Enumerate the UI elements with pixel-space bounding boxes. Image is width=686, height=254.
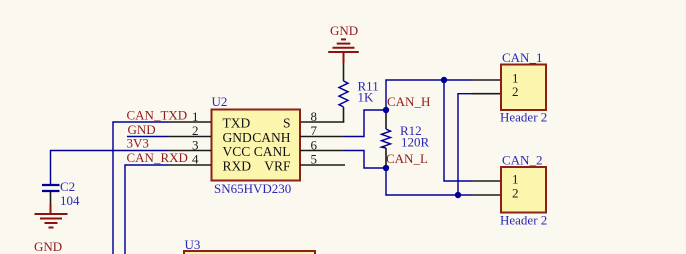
component U3 body (clipped at bottom) <box>184 251 315 254</box>
U2 pin 6 (CANL) <box>254 137 344 159</box>
label U3 <box>185 237 201 252</box>
wire U2 pin 8 to R11 <box>300 121 344 123</box>
label Header 2 (top) <box>500 110 547 125</box>
label R12 <box>400 123 422 138</box>
U2 pin 1 (TXD) <box>168 109 250 131</box>
svg-text:VCC: VCC <box>223 144 251 159</box>
junction node CAN_H bus split <box>441 77 447 83</box>
svg-text:1: 1 <box>192 109 199 124</box>
U2 body <box>212 110 301 181</box>
wire CAN_H branch to CAN_2 pin 1 <box>444 80 472 181</box>
svg-text:Header 2: Header 2 <box>500 213 547 228</box>
net label CAN_H <box>387 94 430 109</box>
power port GND (bottom left) <box>34 204 68 254</box>
svg-text:U2: U2 <box>212 94 228 109</box>
wire node CAN_L to CAN_2 pin 2 <box>386 168 472 195</box>
svg-text:CANH: CANH <box>252 130 291 145</box>
svg-text:1: 1 <box>512 172 519 187</box>
CAN_2 pin 1 <box>472 172 519 187</box>
junction node CAN_L bus split <box>455 192 461 198</box>
net label GND <box>128 122 156 137</box>
CAN_1 pin 2 <box>472 84 519 99</box>
svg-text:4: 4 <box>192 152 199 167</box>
junction node CAN_H at R12 top <box>383 107 389 113</box>
svg-text:VRF: VRF <box>264 158 291 173</box>
wire CAN_1 pin 2 to CAN_L branch <box>458 94 472 195</box>
CAN_1 pin 1 <box>472 71 519 86</box>
net label CAN_RXD <box>127 150 188 165</box>
wire CAN_TXD (to U3) <box>113 122 168 254</box>
svg-text:7: 7 <box>311 123 318 138</box>
U2 pin 2 (GND) <box>168 123 252 145</box>
svg-text:CAN_L: CAN_L <box>386 151 428 166</box>
svg-text:Header 2: Header 2 <box>500 110 547 125</box>
svg-text:1K: 1K <box>358 90 375 105</box>
svg-text:S: S <box>283 116 291 131</box>
U2 pin 4 (RXD) <box>168 152 251 174</box>
U2 pin 7 (CANH) <box>252 123 344 145</box>
label CAN_2 <box>502 153 542 168</box>
net label CAN_L <box>386 151 428 166</box>
svg-text:RXD: RXD <box>223 158 252 173</box>
svg-text:3: 3 <box>192 137 199 152</box>
U2 pin 8 (S) <box>283 109 317 131</box>
svg-text:2: 2 <box>512 186 519 201</box>
header CAN_2 body <box>501 167 546 213</box>
svg-text:GND: GND <box>223 130 252 145</box>
svg-text:CAN_RXD: CAN_RXD <box>127 150 188 165</box>
svg-text:TXD: TXD <box>223 116 251 131</box>
resistor R12 <box>382 110 391 168</box>
power port GND (top) <box>328 23 359 63</box>
label C2 <box>60 179 75 194</box>
capacitor C2 <box>42 185 60 204</box>
header CAN_1 body <box>501 65 546 111</box>
label R11 <box>358 79 379 94</box>
U2 pin 5 (VRF) <box>264 152 345 174</box>
svg-text:CAN_1: CAN_1 <box>502 50 542 65</box>
svg-text:6: 6 <box>311 137 318 152</box>
label SN65HVD230 <box>214 181 291 196</box>
svg-text:C2: C2 <box>60 179 75 194</box>
svg-text:8: 8 <box>311 109 318 124</box>
svg-text:2: 2 <box>512 84 519 99</box>
junction node CAN_L at R12 bottom <box>383 165 389 171</box>
svg-text:GND: GND <box>34 239 62 254</box>
label CAN_1 <box>502 50 542 65</box>
svg-text:U3: U3 <box>185 237 201 252</box>
resistor R11 <box>339 63 348 122</box>
U2 pin 3 (VCC) <box>168 137 250 159</box>
svg-text:GND: GND <box>330 23 358 38</box>
wire CAN_RXD (to U3) <box>125 165 168 254</box>
net label CAN_TXD <box>127 108 188 123</box>
svg-text:2: 2 <box>192 123 199 138</box>
svg-text:SN65HVD230: SN65HVD230 <box>214 181 291 196</box>
wire U2 pin 7 to node CAN_H <box>344 110 386 137</box>
svg-text:CAN_2: CAN_2 <box>502 153 542 168</box>
wire node CAN_H to CAN_1 pin 1 <box>386 80 472 110</box>
label 120R <box>401 135 430 150</box>
label 104 <box>60 193 80 208</box>
wire 3V3 to C2 <box>51 151 169 185</box>
label Header 2 (bottom) <box>500 213 547 228</box>
svg-text:CAN_TXD: CAN_TXD <box>127 108 188 123</box>
svg-text:3V3: 3V3 <box>127 136 149 151</box>
label 1K <box>358 90 375 105</box>
label U2 <box>212 94 228 109</box>
svg-text:104: 104 <box>60 193 80 208</box>
svg-text:5: 5 <box>311 152 318 167</box>
svg-text:CANL: CANL <box>254 144 291 159</box>
wire U2 pin 6 to node CAN_L <box>344 151 386 169</box>
svg-text:120R: 120R <box>401 135 430 150</box>
net label 3V3 <box>127 136 149 151</box>
svg-text:CAN_H: CAN_H <box>387 94 430 109</box>
CAN_2 pin 2 <box>472 186 519 201</box>
wire GND stub <box>127 136 168 138</box>
